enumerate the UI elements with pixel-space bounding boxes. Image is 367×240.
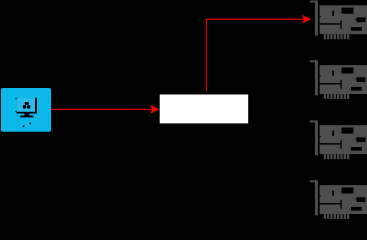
wire — [206, 19, 304, 91]
NIC card 2 — [310, 60, 367, 99]
NIC card 1 — [310, 1, 367, 40]
white box (server) — [160, 95, 249, 124]
small dot right — [29, 123, 31, 125]
arrowhead — [150, 105, 159, 114]
stand base — [20, 116, 33, 118]
screen right border — [35, 98, 37, 114]
NIC card 3 — [310, 120, 367, 159]
arrowhead — [302, 15, 311, 24]
arrow box to NIC 1 — [206, 15, 311, 91]
small dot left — [23, 125, 25, 127]
corner dot top-left — [16, 98, 17, 99]
wire — [51, 108, 153, 110]
stand stem — [25, 114, 30, 116]
trefoil glyph — [23, 102, 31, 109]
computer icon (cyan workstation) — [1, 88, 51, 132]
arrow computer to box — [51, 105, 159, 114]
NIC card 4 — [310, 180, 367, 219]
screen — [17, 98, 35, 112]
corner dot bottom-left — [16, 111, 17, 112]
screen bottom border — [17, 112, 37, 114]
